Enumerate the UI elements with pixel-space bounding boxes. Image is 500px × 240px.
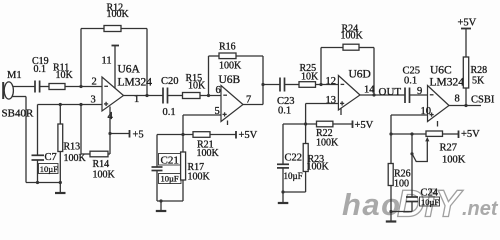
- svg-text:.net: .net: [462, 198, 499, 220]
- svg-text:0.1: 0.1: [34, 64, 47, 75]
- ground symbol U6B: [156, 201, 167, 211]
- svg-text:0.1: 0.1: [163, 107, 176, 118]
- wire C19 to R11: [40, 86, 49, 88]
- wire R23 bottom lead: [305, 172, 307, 193]
- svg-text:R14: R14: [93, 159, 110, 170]
- label C19 value: [32, 56, 49, 75]
- svg-text:+5V: +5V: [461, 129, 480, 140]
- resistor R17: [181, 152, 211, 183]
- wire U6D output: [360, 94, 405, 96]
- label C7: [39, 152, 59, 174]
- svg-text:10µF: 10µF: [284, 171, 303, 181]
- wire pin10 input: [391, 114, 428, 116]
- wire R24 top left: [321, 47, 343, 49]
- svg-text:100K: 100K: [316, 138, 339, 149]
- wire pin13 input: [306, 103, 339, 105]
- svg-text:R28: R28: [471, 65, 488, 76]
- svg-text:LM324: LM324: [430, 77, 465, 89]
- wire ground bus left: [26, 182, 60, 184]
- label C22: [284, 153, 303, 182]
- svg-text:R16: R16: [219, 42, 236, 53]
- node pin3/R13 junction: [59, 103, 62, 106]
- svg-text:10µF: 10µF: [421, 197, 439, 207]
- svg-text:11: 11: [102, 56, 112, 67]
- capacitor C25: [405, 88, 410, 104]
- capacitor C7: [32, 155, 45, 160]
- wire pin13 bias vertical: [305, 104, 307, 144]
- svg-text:100: 100: [394, 179, 409, 190]
- wire R16 top right: [236, 55, 263, 57]
- wire to C23: [263, 84, 280, 86]
- wire ground bus U6C: [391, 211, 412, 213]
- op-amp U6D: [338, 76, 360, 111]
- wire R27 to +5V: [443, 133, 459, 135]
- wire to +5 tick: [110, 133, 130, 135]
- svg-text:C21: C21: [161, 155, 179, 167]
- svg-text:R13: R13: [64, 142, 81, 153]
- label U6C: [430, 65, 465, 89]
- wire C22 tee: [283, 123, 317, 125]
- wire mic to C19: [13, 86, 35, 88]
- op-amp U6B: [221, 86, 243, 122]
- U6C bottom stub: [437, 121, 439, 127]
- wire R24 left vertical: [320, 48, 322, 85]
- wire R16 right vertical: [262, 56, 264, 105]
- +5V supply tick U6B: [236, 130, 258, 141]
- U6B bottom stub: [227, 121, 229, 126]
- node pin5 bias junction: [181, 133, 184, 136]
- resistor R15: [183, 73, 207, 99]
- node wiper tie junction: [410, 152, 413, 155]
- svg-text:10µF: 10µF: [161, 174, 179, 184]
- label C20: [161, 76, 179, 118]
- wire R11 to pin2: [65, 86, 102, 88]
- svg-text:U6A: U6A: [118, 64, 141, 76]
- wire C21 tee: [157, 134, 193, 136]
- capacitor C24: [406, 134, 418, 212]
- wire mic bottom lead: [12, 97, 26, 183]
- svg-text:100K: 100K: [107, 9, 130, 20]
- svg-text:100K: 100K: [188, 172, 211, 183]
- op-amp U6A: [102, 77, 124, 111]
- node output/R28 junction: [464, 104, 467, 107]
- svg-text:100K: 100K: [219, 61, 242, 72]
- node U6B output/C23 junction: [261, 83, 264, 86]
- svg-text:M1: M1: [7, 70, 22, 81]
- +5V supply tick U6D: [353, 120, 374, 131]
- svg-text:2: 2: [92, 77, 97, 88]
- wire +5V to R28: [465, 29, 467, 58]
- wire R13 top lead: [59, 105, 61, 125]
- svg-text:10µF: 10µF: [40, 164, 58, 174]
- wire R27 left lead: [391, 133, 426, 135]
- wire ground bus U6B: [157, 200, 183, 202]
- node ground bus U6D: [281, 190, 284, 193]
- node pin4/R14/+5 junction: [108, 132, 111, 135]
- resistor R26: [388, 164, 410, 190]
- wire ground bus U6D: [283, 191, 306, 193]
- wire C23 to R25: [285, 84, 300, 86]
- wire R12 top left: [81, 28, 104, 30]
- svg-text:100K: 100K: [93, 170, 116, 181]
- node C7 bus junction: [36, 181, 39, 184]
- label C24: [420, 188, 440, 207]
- capacitor C23: [280, 78, 285, 92]
- capacitor C19: [35, 81, 40, 93]
- resistor R14: [90, 151, 116, 180]
- node output/R12 junction: [145, 94, 148, 97]
- wire pin10 bias vertical: [390, 115, 392, 164]
- resistor R22: [316, 121, 339, 148]
- resistor R11: [49, 63, 74, 90]
- wire R24 right vertical: [373, 48, 375, 96]
- svg-text:0.1: 0.1: [404, 76, 417, 87]
- wire R14 right lead: [108, 153, 110, 155]
- node C24 top junction: [410, 132, 413, 135]
- label C23: [277, 96, 295, 117]
- label C21: [159, 154, 182, 184]
- svg-text:+5V: +5V: [239, 130, 258, 141]
- U6D bottom stub: [340, 108, 342, 115]
- pin11 top bar: [112, 45, 120, 47]
- ground symbol left: [55, 183, 66, 194]
- svg-text:8: 8: [455, 94, 460, 105]
- resistor R23: [303, 144, 329, 173]
- svg-text:10K: 10K: [301, 72, 319, 83]
- wire R13 bottom lead: [59, 152, 61, 183]
- ground symbol U6C: [386, 212, 397, 222]
- wire pin4 vertical: [109, 107, 111, 155]
- capacitor C21: [152, 135, 163, 202]
- wire U6C output: [449, 105, 481, 107]
- svg-text:100K: 100K: [341, 31, 364, 42]
- wire R14 left vertical: [81, 105, 90, 155]
- +5V supply tick U6C: [459, 129, 481, 140]
- node pin6/R16 junction: [207, 94, 210, 97]
- wire C7 vertical top: [37, 105, 39, 156]
- svg-text:U6B: U6B: [219, 74, 241, 86]
- node ground bus U6B: [159, 199, 162, 202]
- wire pin5 bias vertical: [182, 115, 184, 152]
- microphone M1: [3, 82, 13, 99]
- wire R22 to +5V: [333, 123, 353, 125]
- node pin3/R14 junction: [79, 103, 82, 106]
- wire R26 bottom lead: [390, 186, 392, 212]
- wire C25 to pin9: [410, 94, 428, 96]
- svg-text:U6C: U6C: [430, 65, 452, 77]
- svg-text:SB40R: SB40R: [2, 108, 34, 120]
- wire R21 to +5V: [210, 134, 236, 136]
- wire R17 bottom lead: [182, 180, 184, 201]
- svg-text:LM324: LM324: [118, 77, 153, 89]
- node pin12/R24 junction: [319, 83, 322, 86]
- wire R16 top left: [209, 55, 220, 57]
- svg-text:CSBI: CSBI: [471, 95, 495, 106]
- wire R12 top right: [121, 28, 147, 30]
- node pin2/R12 junction: [79, 85, 82, 88]
- capacitor C22: [277, 124, 289, 192]
- svg-text:9: 9: [417, 86, 422, 97]
- resistor R24: [341, 24, 364, 51]
- resistor R28: [463, 57, 487, 88]
- capacitor C20: [163, 88, 168, 104]
- svg-text:100K: 100K: [307, 162, 330, 173]
- wire R25 to pin12: [316, 84, 339, 86]
- svg-text:C7: C7: [45, 152, 57, 163]
- wire C7 vertical bottom: [37, 160, 39, 183]
- +5 supply tick: [130, 130, 144, 141]
- wire R28 to output: [465, 88, 467, 106]
- svg-text:6: 6: [216, 85, 221, 96]
- node output/R24 junction: [372, 93, 375, 96]
- svg-text:5K: 5K: [472, 76, 485, 87]
- resistor R25: [299, 63, 319, 87]
- svg-text:+5: +5: [133, 130, 144, 141]
- +5V supply top: [458, 18, 477, 29]
- svg-text:R27: R27: [440, 143, 458, 154]
- svg-text:10K: 10K: [188, 81, 206, 92]
- label U6A: [118, 64, 153, 89]
- wire pin11 vertical: [114, 46, 116, 88]
- resistor R21: [193, 132, 220, 159]
- wire R24 top right: [359, 47, 374, 49]
- resistor R13: [58, 124, 87, 164]
- wire U6A output: [124, 95, 164, 97]
- svg-text:0.1: 0.1: [278, 106, 291, 117]
- svg-text:13: 13: [326, 95, 337, 106]
- label C25: [403, 66, 421, 87]
- wire pin3 input: [38, 104, 103, 106]
- node pin13 bias junction: [304, 122, 307, 125]
- wire pin5 input: [183, 114, 221, 116]
- svg-text:10K: 10K: [56, 70, 74, 81]
- wire U6B output: [243, 104, 263, 106]
- potentiometer R27: [426, 131, 466, 166]
- wire C20 to R15: [168, 95, 183, 97]
- svg-text:12: 12: [326, 76, 337, 87]
- node pin10 bias junction: [389, 132, 392, 135]
- wire R12 right vertical: [146, 29, 148, 96]
- op-amp U6C: [428, 86, 450, 122]
- node ground bus U6C: [389, 210, 392, 213]
- svg-text:+5V: +5V: [458, 18, 477, 29]
- svg-text:+5V: +5V: [355, 120, 374, 131]
- resistor R16: [219, 42, 242, 72]
- ground symbol U6D: [278, 192, 289, 203]
- svg-text:100K: 100K: [442, 155, 466, 166]
- svg-text:OUT: OUT: [379, 86, 402, 98]
- resistor R12: [104, 3, 130, 32]
- svg-text:U6D: U6D: [349, 69, 371, 81]
- wire R16 left vertical: [208, 56, 210, 96]
- wire R15 to pin6: [200, 95, 221, 97]
- svg-text:hao: hao: [342, 187, 402, 222]
- node ground bus junction: [59, 181, 62, 184]
- svg-text:100K: 100K: [197, 148, 220, 159]
- svg-text:C22: C22: [285, 153, 303, 164]
- R27 wiper arrow: [412, 137, 429, 162]
- wire R12 left vertical: [80, 29, 82, 87]
- svg-text:C20: C20: [161, 76, 179, 87]
